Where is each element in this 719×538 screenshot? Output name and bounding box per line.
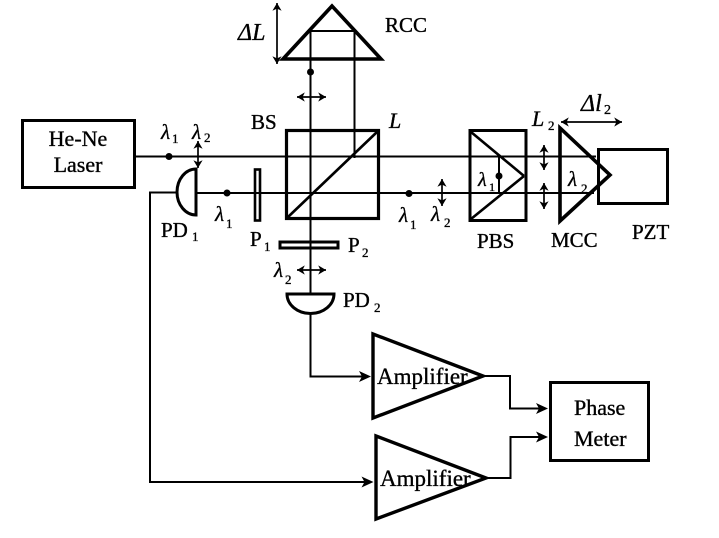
svg-text:1: 1 [172, 131, 179, 146]
svg-text:ΔL: ΔL [237, 20, 265, 46]
svg-text:PBS: PBS [477, 229, 514, 253]
svg-text:2: 2 [581, 181, 588, 196]
svg-text:Amplifier: Amplifier [377, 364, 468, 389]
svg-text:λ: λ [273, 258, 283, 282]
svg-text:BS: BS [251, 110, 277, 134]
svg-text:2: 2 [285, 272, 292, 287]
svg-text:PZT: PZT [632, 220, 670, 244]
svg-text:Phase: Phase [574, 395, 625, 420]
svg-text:1: 1 [192, 229, 199, 244]
svg-text:λ: λ [160, 120, 170, 144]
svg-text:2: 2 [548, 118, 555, 133]
svg-text:1: 1 [226, 216, 233, 231]
svg-text:2: 2 [204, 130, 211, 145]
svg-text:Δl: Δl [580, 91, 602, 117]
svg-text:PD: PD [161, 218, 188, 242]
svg-text:Meter: Meter [574, 426, 627, 451]
svg-text:λ: λ [214, 202, 224, 226]
svg-text:λ: λ [191, 120, 201, 144]
svg-text:λ: λ [430, 202, 440, 226]
svg-text:2: 2 [362, 245, 369, 260]
svg-text:MCC: MCC [551, 228, 598, 252]
svg-text:L: L [531, 106, 544, 131]
svg-text:L: L [388, 108, 401, 133]
svg-text:λ: λ [398, 203, 408, 227]
svg-text:He-Ne: He-Ne [49, 126, 108, 151]
svg-text:1: 1 [410, 217, 417, 232]
svg-text:2: 2 [604, 103, 611, 118]
svg-text:1: 1 [264, 239, 271, 254]
svg-text:PD: PD [343, 288, 370, 312]
svg-text:2: 2 [444, 215, 451, 230]
svg-text:λ: λ [477, 169, 487, 191]
svg-text:2: 2 [374, 300, 381, 315]
svg-text:RCC: RCC [385, 13, 427, 37]
svg-text:λ: λ [567, 167, 577, 191]
svg-text:Laser: Laser [54, 152, 104, 177]
svg-text:1: 1 [489, 180, 495, 194]
svg-text:Amplifier: Amplifier [380, 466, 471, 491]
svg-text:P: P [348, 233, 360, 257]
svg-text:P: P [250, 227, 262, 251]
